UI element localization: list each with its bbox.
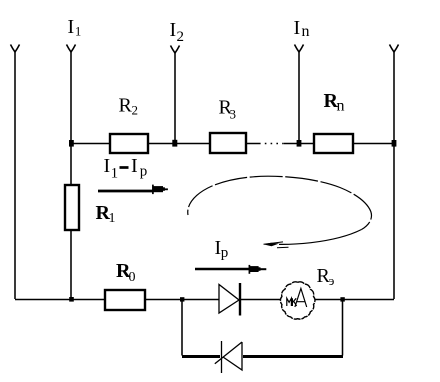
svg-text:3: 3 (230, 107, 237, 122)
svg-text:I: I (131, 155, 138, 177)
svg-text:n: n (302, 23, 310, 40)
svg-text:I: I (170, 19, 177, 41)
svg-text:I: I (104, 155, 111, 177)
svg-text:I: I (294, 17, 301, 39)
svg-text:2: 2 (132, 103, 139, 118)
svg-text:2: 2 (177, 29, 185, 45)
svg-text:1: 1 (111, 166, 119, 182)
svg-text:n: n (337, 98, 345, 115)
svg-text:R: R (119, 95, 133, 117)
svg-text:1: 1 (75, 25, 81, 39)
svg-text:э: э (329, 273, 335, 288)
svg-text:I: I (68, 16, 75, 38)
svg-text:p: p (221, 245, 229, 261)
svg-text:1: 1 (109, 211, 116, 226)
svg-text:p: p (140, 164, 148, 180)
svg-text:0: 0 (129, 270, 136, 285)
